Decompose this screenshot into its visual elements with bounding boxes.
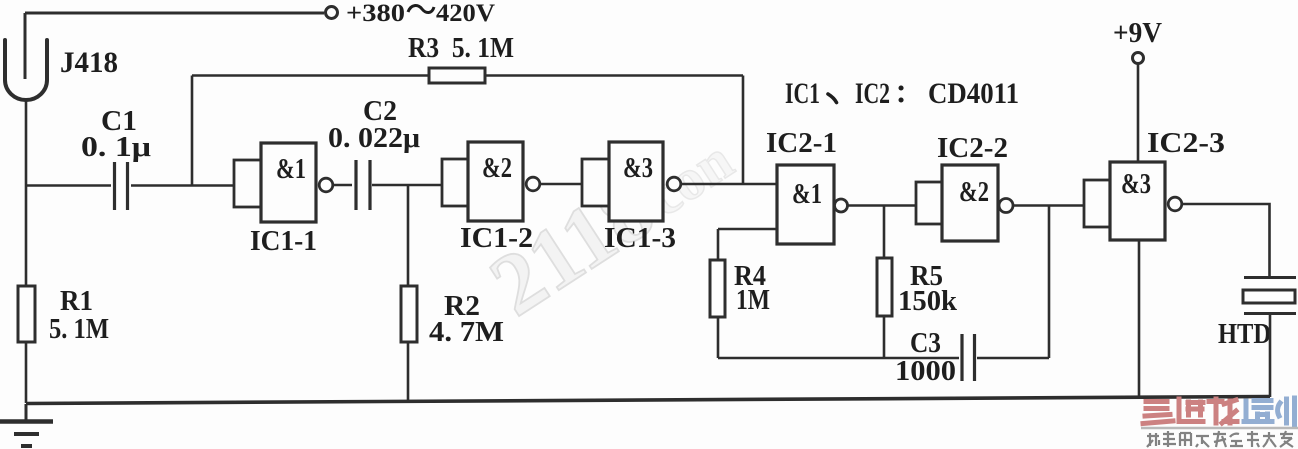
capacitor C3 [962,334,975,381]
watermark 2118 diagonal [474,127,744,335]
svg-text:+9V: +9V [1113,17,1162,49]
wire down to R5 [883,206,886,259]
gate IC1-1 body [261,143,316,222]
capacitor C1 [115,162,128,210]
svg-text:&2: &2 [959,176,989,208]
gate IC2-2 body [942,165,998,241]
wire IC1-2 out [540,183,582,186]
svg-text:IC2: IC2 [855,77,890,110]
svg-text:IC1: IC1 [785,77,820,110]
wire top rail [25,12,324,15]
svg-text:+380: +380 [346,0,405,27]
bubble IC2-2 output [999,199,1013,213]
piezo HTD top plate [1244,276,1296,279]
wire C3 up branch [1048,206,1051,359]
svg-text:4. 7M: 4. 7M [429,316,504,348]
svg-text:IC2-1: IC2-1 [766,127,837,159]
svg-text:0. 022μ: 0. 022μ [328,122,421,154]
logo divider line [1141,427,1298,430]
wire R2 bottom [407,342,410,401]
svg-text:R3 5. 1M: R3 5. 1M [408,33,514,64]
svg-text:J418: J418 [60,46,118,79]
logo yiditu red [1143,398,1295,425]
svg-text:IC1-1: IC1-1 [250,225,317,257]
capacitor C2 [356,160,370,210]
wire IC2-1 out [847,204,916,207]
wire down to R4 [717,229,720,260]
gate IC1-2 input box [442,159,468,206]
wire R3 branch left vertical [191,76,194,186]
wire C1 left [26,184,111,187]
cjk colon [899,88,904,100]
resistor R3 [429,68,485,83]
svg-text:&2: &2 [482,152,512,184]
wire R2 branch vertical [407,185,410,286]
svg-text:IC2-3: IC2-3 [1147,127,1225,159]
bubble IC2-1 output [835,199,848,212]
bubble IC2-3 output [1168,197,1182,211]
svg-text:CD4011: CD4011 [928,77,1019,110]
gate IC2-2 input box [916,182,942,224]
svg-text:5. 1M: 5. 1M [49,313,109,345]
svg-text:1000: 1000 [895,355,956,387]
wire IC2-1 second input [718,228,777,231]
svg-text:IC1-3: IC1-3 [604,222,676,254]
wire IC1-1 out [333,184,352,187]
svg-text:&3: &3 [623,152,653,184]
svg-text:0. 1μ: 0. 1μ [81,131,152,163]
svg-text:HTD: HTD [1218,318,1271,350]
svg-text:&1: &1 [276,153,306,185]
gate IC2-1 body [777,165,834,244]
bubble IC1-1 output [319,178,333,192]
bubble IC1-3 output [667,177,681,191]
piezo HTD bottom plate [1244,312,1296,315]
ground rail [26,397,1270,404]
gate IC1-3 body [609,142,663,221]
wire R3 branch right vertical [742,76,745,185]
resistor R1 [18,286,35,342]
piezo HTD element [1243,290,1295,303]
svg-text:1M: 1M [736,284,770,316]
wire C2 right [372,184,442,187]
terminal +380~420V [326,7,338,19]
wire R1 bottom [25,342,28,403]
probe J418 cup [5,40,47,100]
wire IC2-3 out [1182,204,1270,277]
svg-text:&3: &3 [1121,168,1151,200]
wire gate bottom to rail [1138,240,1141,398]
tilde [408,6,434,13]
svg-text:IC1-2: IC1-2 [460,222,533,254]
wire R5 bottom [883,316,886,358]
wire C3 right [977,357,1049,360]
gate IC2-3 input box [1084,180,1110,227]
wire IC2-2 out [1013,204,1084,207]
wire R3 rail [192,74,743,77]
ground symbol [25,404,28,420]
resistor R2 [401,286,417,342]
gate IC2-3 body [1110,162,1165,240]
resistor R5 [877,258,892,316]
bubble IC1-2 output [526,177,540,191]
op-amp gate IC1-1 input box [234,160,261,207]
gate IC1-3 input box [582,159,609,206]
wire +9V to gate top [1137,64,1140,162]
wire IC1-3 out to IC2-1 [681,183,777,186]
svg-text:&1: &1 [792,178,822,210]
svg-text:420V: 420V [436,0,495,27]
wire oscillator bottom [718,357,959,360]
cjk comma [828,94,837,103]
resistor R4 [710,260,725,317]
terminal +9V [1133,53,1144,64]
wire R4 bottom [717,317,720,358]
svg-text:IC2-2: IC2-2 [937,132,1008,164]
gate IC1-2 body [468,142,523,221]
wire probe electrode from top rail [24,13,27,79]
wire cup bottom down [25,101,28,286]
logo tagline [1147,431,1293,447]
wire C1 right [131,184,234,187]
svg-text:150k: 150k [898,285,958,317]
wire HTD bottom [1269,314,1272,398]
